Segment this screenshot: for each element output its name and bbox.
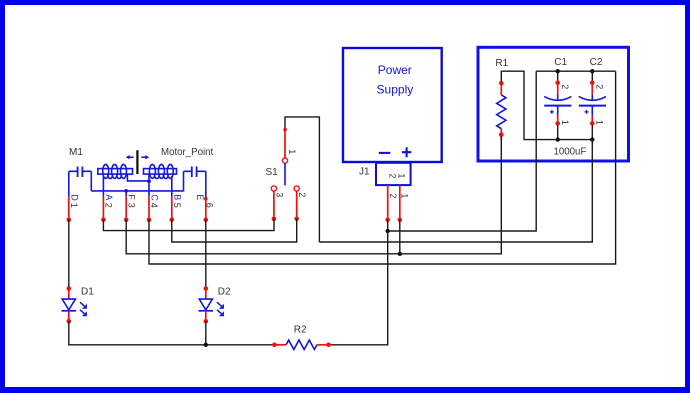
wire B5 to S1 pin2 (172, 219, 297, 242)
svg-text:2: 2 (104, 203, 114, 208)
pin B5 (170, 194, 183, 222)
motor left winding coil (98, 164, 149, 196)
pin F3 (124, 194, 137, 222)
svg-text:1: 1 (399, 193, 409, 198)
svg-text:E: E (195, 194, 205, 200)
pin A2 (101, 194, 114, 222)
svg-text:D2: D2 (218, 287, 231, 298)
svg-text:A: A (104, 194, 114, 200)
svg-text:3: 3 (126, 203, 136, 208)
svg-text:1: 1 (560, 120, 570, 125)
capacitor C2 (579, 57, 606, 140)
svg-text:1: 1 (595, 120, 605, 125)
svg-text:2: 2 (560, 84, 570, 89)
wire J1 pin1 drop (399, 220, 401, 254)
svg-text:R2: R2 (294, 324, 307, 335)
svg-text:6: 6 (205, 203, 215, 208)
wire J1 pin2 down to R2 (330, 220, 388, 345)
junction C1 top (556, 69, 560, 73)
motor right winding coil (144, 164, 177, 196)
capacitor C1 (544, 57, 571, 140)
motor left brush capacitor (69, 167, 92, 197)
svg-text:D1: D1 (81, 287, 94, 298)
junction D2 bottom (204, 343, 208, 347)
LED D1 (62, 286, 95, 323)
wire C4 to C tops right end (149, 71, 616, 264)
motor gap bar (136, 150, 138, 174)
svg-text:2: 2 (388, 193, 398, 198)
J1 pin 1 (398, 185, 410, 222)
wire R1 top to C1/C2 bottoms (501, 71, 592, 139)
svg-text:2: 2 (297, 192, 307, 197)
svg-text:1: 1 (396, 173, 406, 178)
wire C1/C2 tops bus (536, 70, 615, 72)
motor right brush capacitor (184, 167, 206, 198)
svg-text:M1: M1 (69, 147, 83, 158)
svg-text:B: B (172, 194, 182, 200)
S1 top wire (285, 117, 319, 242)
svg-text:F: F (127, 194, 137, 200)
svg-text:4: 4 (149, 203, 159, 208)
switch S1 (266, 117, 320, 242)
pin E6 (195, 194, 215, 222)
motor right arrow (141, 155, 149, 159)
svg-text:D: D (69, 194, 79, 201)
pin C4 (147, 194, 160, 222)
svg-text:S1: S1 (266, 167, 279, 178)
motor internal junction at F (124, 189, 128, 193)
wire E pin to LED D2 (205, 220, 207, 289)
svg-text:5: 5 (172, 203, 182, 208)
junction C2 bottom (590, 137, 594, 141)
connector J1 (359, 163, 411, 185)
power supply box (343, 48, 442, 162)
svg-text:1: 1 (69, 203, 79, 208)
junction C1 bottom (556, 137, 560, 141)
pin D1 (67, 194, 80, 222)
plus terminal (402, 147, 412, 157)
svg-text:C: C (150, 194, 160, 201)
svg-text:2: 2 (595, 84, 605, 89)
svg-text:Supply: Supply (377, 83, 414, 97)
resistor R2 (272, 324, 331, 349)
wire F3 to R1 bottom (126, 136, 501, 254)
svg-text:1: 1 (287, 149, 297, 154)
svg-text:Motor_Point: Motor_Point (161, 147, 214, 158)
svg-text:C2: C2 (590, 57, 603, 68)
svg-text:2: 2 (388, 173, 398, 178)
J1 pin 2 (385, 185, 398, 222)
R1 C1 C2 enclosure box (478, 47, 629, 161)
motor internal bus wire (91, 190, 183, 192)
junction J1 pin1 (398, 252, 402, 256)
svg-text:1000uF: 1000uF (554, 146, 587, 157)
LED D2 (199, 286, 232, 323)
minus terminal (379, 152, 391, 154)
S1 lever (284, 163, 286, 185)
wire J1 pin2 branch to C tops left end (388, 71, 537, 231)
resistor R1 (495, 58, 508, 140)
wire D pin to LED D1 (68, 220, 70, 289)
junction C2 top (590, 69, 594, 73)
svg-text:Power: Power (378, 63, 412, 77)
S1 pin 3 (271, 186, 276, 191)
wire S1 return to C2 bottom (319, 140, 592, 242)
wire D2 bottom (205, 321, 207, 345)
wire A2 to S1 pin3 (103, 219, 274, 231)
svg-text:J1: J1 (359, 167, 370, 178)
motor F stub (125, 191, 127, 197)
bottom wire D1 to R2 (69, 321, 274, 345)
motor left arrow (126, 155, 134, 159)
S1 pin 2 (294, 186, 299, 191)
svg-text:3: 3 (274, 192, 284, 197)
svg-text:R1: R1 (495, 58, 508, 69)
svg-text:C1: C1 (554, 57, 567, 68)
motor internal junction at C (147, 179, 151, 183)
S1 pin 1 (284, 129, 286, 158)
junction J1 pin2 (386, 229, 390, 233)
